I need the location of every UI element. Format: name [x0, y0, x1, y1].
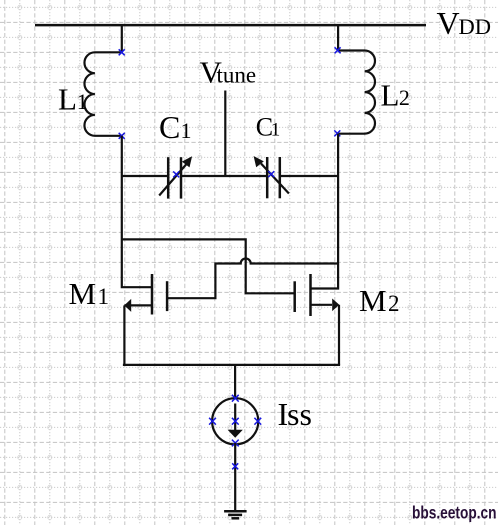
- inductor L1: [84, 52, 121, 136]
- node x varactor left: [173, 171, 179, 177]
- wire varactor row right segment: [280, 175, 338, 177]
- wire VDD rail: [35, 24, 426, 27]
- transistor M2: [309, 274, 312, 316]
- current source arrow: [234, 404, 236, 431]
- node x cs center: [232, 418, 239, 425]
- svg-text:2: 2: [399, 85, 410, 110]
- node x cs left: [209, 418, 216, 425]
- svg-text:L: L: [58, 82, 77, 117]
- svg-text:tune: tune: [217, 62, 257, 87]
- wire varactor row middle segment: [181, 175, 267, 177]
- svg-text:1: 1: [271, 120, 281, 141]
- node x L1 bottom: [119, 133, 125, 139]
- svg-text:M: M: [359, 283, 387, 318]
- node x L1 top: [119, 49, 125, 55]
- svg-text:M: M: [69, 276, 97, 311]
- node x cs right: [254, 418, 261, 425]
- wire M1 source down: [123, 305, 125, 365]
- svg-text:L: L: [381, 77, 400, 112]
- wire tail to current source: [234, 365, 236, 398]
- svg-text:2: 2: [388, 291, 400, 316]
- wire left vertical (L1 to M1 drain): [122, 136, 152, 287]
- varactor C1 right arrow: [261, 164, 289, 194]
- svg-text:bbs.eetop.cn: bbs.eetop.cn: [412, 503, 497, 523]
- node x L2 top: [335, 47, 341, 53]
- ground: [224, 510, 247, 513]
- svg-text:C: C: [159, 109, 180, 145]
- wire right VDD stub: [337, 24, 339, 50]
- wire M1 gate to right-tank with hop: [167, 259, 338, 299]
- wire left VDD stub: [121, 24, 123, 52]
- node x cs top: [232, 395, 239, 402]
- svg-text:1: 1: [98, 284, 110, 309]
- node x below cs: [232, 463, 238, 469]
- svg-text:V: V: [437, 5, 460, 41]
- inductor L2: [338, 51, 375, 134]
- node x L2 bottom: [334, 130, 340, 136]
- wire varactor row left segment: [122, 175, 168, 177]
- svg-text:DD: DD: [459, 14, 492, 39]
- svg-text:1: 1: [181, 118, 192, 143]
- wire Vtune: [224, 91, 226, 177]
- wire current source to ground: [234, 443, 236, 511]
- current source Iss circle: [212, 398, 258, 444]
- svg-text:ss: ss: [287, 396, 312, 432]
- varactor C1 right plates: [266, 157, 269, 198]
- transistor M1: [151, 274, 154, 315]
- svg-text:1: 1: [77, 89, 88, 114]
- wire right vertical (L2 to M2 drain): [311, 134, 339, 289]
- wire cross-couple left-tank to M2 gate: [122, 239, 295, 293]
- wire tail rail: [123, 364, 340, 366]
- node x cs bottom: [232, 440, 239, 447]
- wire M2 source down: [338, 305, 340, 365]
- node x varactor right: [268, 171, 274, 177]
- varactor C1 left plates: [167, 157, 170, 198]
- varactor C1 left arrow: [159, 164, 186, 196]
